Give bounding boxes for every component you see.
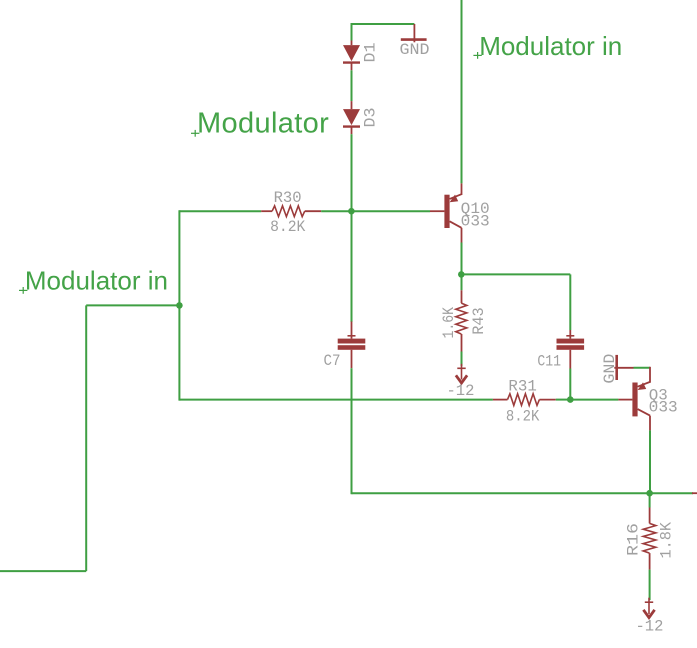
svg-text:D1: D1 (362, 43, 380, 63)
transistor Q3 (PNP) (618, 399, 632, 401)
svg-text:C11: C11 (537, 353, 561, 371)
svg-text:R30: R30 (274, 189, 302, 207)
junction node at R30/D3/C7 (348, 208, 355, 215)
svg-text:033: 033 (461, 213, 490, 231)
wire left net bottom horizontal (0, 570, 86, 572)
wire C11 down to junction (569, 369, 571, 400)
wire R16 to -12 supply (649, 570, 651, 601)
wire between D1 and D3 (351, 70, 353, 101)
wire left net vertical (85, 305, 87, 571)
ground GND symbol (Q3 emitter) (615, 355, 618, 380)
svg-text:1.6K: 1.6K (440, 306, 458, 338)
wire long horizontal to R31 (179, 399, 493, 401)
svg-text:Modulator: Modulator (197, 108, 329, 140)
wire R43 to -12 supply (461, 352, 463, 367)
junction node R31/C11/Q3 base (567, 396, 574, 403)
resistor R16 (649, 508, 651, 524)
wire net top: corner to GND (352, 23, 415, 25)
resistor R30 (261, 210, 272, 212)
junction node bottom (Q3/R16) (646, 490, 653, 497)
wire junction to Q3 base (570, 399, 618, 401)
label Modulator in (left) (19, 289, 27, 291)
label Modulator in (top right) (473, 54, 481, 56)
wire junction into R43 (461, 274, 463, 290)
wire Modulator-in vertical (right) (461, 0, 463, 183)
wire down to C11 (569, 274, 571, 330)
supply -12 (R16) (645, 601, 653, 603)
capacitor C7 (351, 211, 353, 322)
wire bottom horizontal (352, 492, 694, 494)
svg-text:Modulator in: Modulator in (25, 266, 168, 296)
diode D1 (351, 41, 353, 46)
wire junction into R16 (649, 493, 651, 507)
svg-text:033: 033 (649, 398, 678, 416)
svg-text:-12: -12 (447, 382, 475, 400)
ground GND top symbol (413, 24, 415, 42)
svg-text:C7: C7 (324, 352, 341, 370)
transistor Q10 (PNP) (430, 210, 444, 212)
svg-text:8.2K: 8.2K (270, 218, 306, 236)
svg-text:1.8K: 1.8K (657, 521, 675, 558)
resistor R43 (461, 290, 463, 303)
svg-text:-12: -12 (636, 618, 664, 636)
wire Q3 collector down (649, 430, 651, 493)
svg-text:Modulator in: Modulator in (479, 31, 622, 61)
wire pin stub right edge (692, 492, 697, 494)
wire left net to junction (86, 304, 179, 306)
wire R30 left lead net from corner (179, 210, 261, 212)
wire junction to C11 column (461, 273, 570, 275)
wire top vertical into D1 (351, 23, 353, 41)
svg-text:8.2K: 8.2K (506, 408, 540, 426)
svg-text:R31: R31 (508, 378, 536, 396)
label Modulator (big) (191, 132, 199, 134)
junction node Q10 collector / R43 / C11 (458, 271, 465, 278)
diode D3 (351, 101, 353, 109)
wire D3 to junction (351, 134, 353, 211)
resistor R31 (493, 399, 508, 401)
supply -12 (R43) (457, 367, 465, 369)
wire C7 down (351, 368, 353, 494)
svg-text:GND: GND (601, 354, 619, 384)
wire junction to Q10 base (352, 210, 431, 212)
svg-text:GND: GND (400, 41, 430, 59)
capacitor C11 (569, 330, 571, 339)
junction node left net (176, 302, 183, 309)
svg-text:D3: D3 (362, 108, 380, 128)
wire Q10 collector down to junction (461, 243, 463, 275)
wire left vertical R30-to-R31 (178, 210, 180, 400)
svg-text:R16: R16 (624, 523, 642, 556)
svg-text:R43: R43 (470, 307, 488, 335)
wire R30 to junction (321, 210, 351, 212)
wire R31 to junction (556, 399, 571, 401)
wire GND to Q3 emitter corner (634, 367, 651, 369)
